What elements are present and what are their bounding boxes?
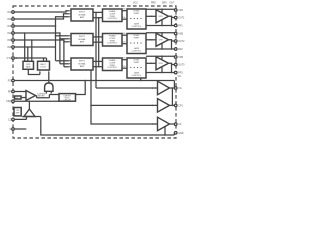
wire U5 to U8 upper with label <box>122 33 127 35</box>
node low rail ch3 <box>171 72 173 74</box>
svg-text:IN4: IN4 <box>7 33 11 35</box>
pin RF2 <box>174 48 183 51</box>
svg-text:VCC: VCC <box>133 3 138 5</box>
wire low rail ch3 <box>146 72 174 74</box>
block D1 power save <box>23 61 34 69</box>
svg-text:CONTROL: CONTROL <box>107 18 118 20</box>
wire VM stub into A2 <box>161 33 163 37</box>
svg-text:CSD: CSD <box>6 101 11 103</box>
svg-text:IN6: IN6 <box>7 47 11 49</box>
svg-text:VG: VG <box>123 58 126 60</box>
pin IN4 <box>7 32 14 35</box>
gate G1 input stubs <box>46 91 51 93</box>
arrow SUB <box>25 128 27 130</box>
svg-text:VG: VG <box>123 66 126 68</box>
node IN3 bus <box>55 25 57 27</box>
pin SUB <box>9 128 14 131</box>
wire TA out down <box>172 88 174 105</box>
wire low stub into A1 <box>161 20 163 26</box>
node low rail ch2 <box>171 48 173 50</box>
svg-text:INPUT: INPUT <box>79 36 86 38</box>
node IN6/D1 <box>27 46 29 48</box>
wire U4 to U7 lower with label <box>122 17 127 19</box>
node VM stub ch3 <box>161 55 163 57</box>
wire low stub into A3 <box>161 67 163 73</box>
wire IN5 down to D1 <box>31 40 33 61</box>
wire limit drop to box arrow <box>77 81 86 95</box>
wire corner down to bottom rail <box>41 117 175 136</box>
svg-text:CONTROL: CONTROL <box>132 26 143 28</box>
svg-text:VM1: VM1 <box>178 10 183 12</box>
node IN3/U2 <box>55 35 57 37</box>
node A3 in <box>150 63 152 65</box>
vertical bus X96 <box>95 12 97 88</box>
svg-text:0.5: 0.5 <box>15 98 18 100</box>
label current limiter <box>37 93 47 97</box>
pin OUT2 <box>174 40 185 43</box>
wire IN1 to U1 <box>14 11 69 12</box>
pin CP1 <box>174 104 183 107</box>
wire IN3 to U2 <box>56 35 69 37</box>
svg-text:CONTROL: CONTROL <box>132 51 143 53</box>
wire TA out <box>170 87 175 89</box>
svg-text:VG: VG <box>123 17 126 19</box>
wire apex riser <box>28 101 30 109</box>
svg-text:VM2: VM2 <box>178 34 183 36</box>
vertical bus X98 <box>98 18 100 67</box>
arrow into D2 bottom right <box>48 70 49 72</box>
wire U2 lower to U5 <box>93 41 103 43</box>
node TA input <box>152 87 154 89</box>
node A2 in <box>150 39 152 41</box>
node A1 in <box>150 15 152 17</box>
node A3 out <box>171 63 173 65</box>
node CSD apex riser <box>29 100 31 102</box>
block U3 signal amp ch3 <box>69 58 93 70</box>
node Vb branch <box>90 105 92 107</box>
svg-text:LOGIC: LOGIC <box>40 67 47 69</box>
node gate/FG <box>48 80 50 82</box>
driver amp TB <box>158 99 170 113</box>
pin OUT3 <box>174 63 185 66</box>
wire IN2 to U1 <box>14 14 69 19</box>
wire IN5 to U2 <box>64 41 69 43</box>
wire VM stub into A3 <box>161 56 163 60</box>
pin VM4 <box>174 87 181 90</box>
node VM stub ch1 <box>161 8 163 10</box>
node IN5/U2 <box>63 41 65 43</box>
svg-text:AMP: AMP <box>80 41 85 44</box>
node VM stub ch2 <box>161 32 163 34</box>
node A1 out <box>171 15 173 17</box>
svg-text:INPUT: INPUT <box>79 61 86 63</box>
block U5 pwm ch2 <box>103 34 123 47</box>
vertical Vb feedback <box>91 70 158 124</box>
wire low stub into A2 <box>161 43 163 49</box>
svg-text:AMP: AMP <box>80 65 85 68</box>
arrow into TB <box>155 105 157 106</box>
svg-text:VG: VG <box>178 76 182 78</box>
wire IN5 bus <box>14 40 64 67</box>
wire A2 out to low rail <box>171 40 173 49</box>
svg-text:CONTROL: CONTROL <box>107 43 118 45</box>
pin VM1 <box>174 9 183 12</box>
pin IN3 <box>7 25 14 28</box>
node low rail ch1 <box>171 25 173 27</box>
wire U3 lower to U6 <box>93 66 103 68</box>
svg-text:PRE: PRE <box>151 3 156 5</box>
block U4 pwm ch1 <box>103 9 123 22</box>
driver amp TC <box>158 117 170 131</box>
wire C3 bottom stub <box>140 78 142 81</box>
block CL current limit <box>59 94 76 102</box>
svg-text:VG: VG <box>178 88 182 90</box>
svg-text:FG: FG <box>8 81 11 83</box>
node CTL <box>16 57 18 59</box>
wire C3 to A3 input <box>146 62 156 64</box>
wire IN6 down to D1 <box>27 47 29 61</box>
wire CTL to D2 <box>14 58 46 61</box>
svg-text:CONTROL: CONTROL <box>132 75 143 77</box>
pin VM3 <box>174 56 183 59</box>
svg-text:CONTROL: CONTROL <box>107 67 118 69</box>
wire U4 to U7 upper with label <box>122 9 127 11</box>
wire U2 to U5 <box>93 36 103 38</box>
pin IN1 <box>7 11 14 14</box>
wire A1 out to low rail <box>171 16 173 25</box>
svg-text:SIGNAL: SIGNAL <box>78 62 86 65</box>
pin CSD <box>6 100 14 103</box>
wire A2 output <box>169 40 175 41</box>
wire comparator out <box>36 95 60 98</box>
IC boundary dashed border <box>13 6 176 138</box>
wire VM rail ch1 <box>146 8 174 11</box>
wire GND pin to base <box>14 117 26 120</box>
node low stub ch3 <box>161 72 163 74</box>
node IN5/D1 <box>31 39 33 41</box>
svg-text:RF: RF <box>8 92 12 94</box>
pin RF3 <box>174 71 183 74</box>
wire IN3 to U3 <box>56 60 69 62</box>
block E thermal <box>14 108 21 116</box>
node base join <box>26 116 28 118</box>
svg-text:CIRCUIT: CIRCUIT <box>64 100 72 102</box>
wire U5 to U8 lower with label <box>122 42 127 44</box>
pin IN2 <box>7 18 14 21</box>
node IN4 bus <box>59 32 61 34</box>
label top annotation row <box>133 3 175 5</box>
svg-text:CTL: CTL <box>7 58 12 60</box>
node IN5 bus <box>63 39 65 41</box>
pin IN5 <box>7 39 14 42</box>
svg-text:RF3: RF3 <box>178 73 183 75</box>
wire IN5 to U3 <box>64 66 69 68</box>
svg-text:VG: VG <box>123 9 126 11</box>
node C3 stub <box>140 80 142 82</box>
wire U6 to U9 lower with label <box>122 66 127 68</box>
svg-text:AMP: AMP <box>80 16 85 19</box>
node IN4/CTL <box>24 32 26 34</box>
svg-text:DRV: DRV <box>162 3 167 5</box>
svg-text:SHIFT: SHIFT <box>134 13 141 15</box>
svg-text:IN5: IN5 <box>7 40 11 42</box>
node U3 out2 <box>98 66 100 68</box>
wire U1 to U4 <box>93 11 103 13</box>
svg-text:VM3: VM3 <box>178 57 183 59</box>
pin FG <box>8 79 15 82</box>
wire A3 out to low rail <box>171 63 173 72</box>
driver amp TA <box>158 81 170 95</box>
svg-text:CP1: CP1 <box>178 105 183 107</box>
pin RF1 <box>174 24 183 27</box>
node U2 out <box>95 36 97 38</box>
svg-text:OUT3: OUT3 <box>178 65 185 67</box>
pin GND1 <box>8 118 14 121</box>
svg-text:SHIFT: SHIFT <box>134 62 141 64</box>
wire A1 output <box>169 16 175 17</box>
svg-text:OUT1: OUT1 <box>178 18 185 20</box>
wire low rail ch2 <box>146 48 174 50</box>
node rail stub <box>164 134 166 136</box>
svg-text:IN2: IN2 <box>7 19 11 21</box>
node low stub ch2 <box>161 48 163 50</box>
wire U6 to U9 upper with label <box>122 58 127 60</box>
wire IN6 <box>14 46 55 48</box>
wire IN3 bus <box>14 26 55 61</box>
wire FG rail <box>14 81 174 89</box>
wire IN4 down to D1 <box>24 33 26 61</box>
node low stub ch1 <box>161 25 163 27</box>
wire C2 to A2 input <box>146 39 156 41</box>
arrow into D2 bottom left <box>39 70 40 72</box>
wire VM rail ch3 <box>146 55 174 58</box>
wire IN4 to U3 <box>60 63 69 65</box>
wire SUB arrow <box>14 128 25 130</box>
wire low rail ch1 <box>146 25 174 27</box>
block D2 fault logic <box>38 61 50 70</box>
node IN4/U2 <box>59 38 61 40</box>
node TC input <box>152 123 154 125</box>
arrow into TA <box>155 87 157 88</box>
wire TB out <box>170 104 173 106</box>
svg-text:C2: C2 <box>178 124 182 126</box>
pin GND2 <box>174 132 183 135</box>
pin CTL <box>7 57 15 60</box>
block U9 predriver ch3 <box>127 58 146 78</box>
svg-text:OUT2: OUT2 <box>178 41 185 43</box>
pin VM2 <box>174 32 183 35</box>
wire Va to TA <box>96 87 158 89</box>
driver amp A2 ch2 <box>156 33 169 46</box>
wire U3 to U6 <box>93 60 103 62</box>
gate G1 <box>45 83 53 91</box>
pin C2 <box>174 123 182 126</box>
wire A3 output <box>169 63 175 64</box>
wire C1 to A1 input <box>146 15 156 17</box>
svg-text:IN3: IN3 <box>7 26 11 28</box>
svg-text:RF1: RF1 <box>178 26 183 28</box>
svg-text:RF2: RF2 <box>178 49 183 51</box>
driver amp A1 ch1 <box>156 10 169 23</box>
wire IN4 bus <box>14 33 60 64</box>
node U1 out2 <box>98 17 100 19</box>
wire TC out <box>170 123 175 125</box>
node TB out join <box>172 105 174 107</box>
wire gate out up to D2 arrow <box>48 72 50 83</box>
wire VM stub into A1 <box>161 9 163 13</box>
block U1 signal amp ch1 <box>69 9 93 21</box>
driver amp A3 ch3 <box>156 57 169 70</box>
node FG/limit <box>84 80 86 82</box>
arrow into B row 12.4 <box>100 12 102 13</box>
wire CSD along bottom of limiter <box>14 100 59 102</box>
wire D1 bottom to D2 arrow <box>28 69 40 74</box>
node TB input <box>152 105 154 107</box>
node IN4/CTL join <box>24 57 26 59</box>
arrow into TC <box>155 123 157 124</box>
comparator CMP1 <box>26 91 36 101</box>
svg-text:GND: GND <box>178 133 183 135</box>
svg-text:SIGNAL: SIGNAL <box>78 38 86 41</box>
node U2 out2 <box>98 41 100 43</box>
wire IN3 branch up to U1 <box>56 17 69 26</box>
wire VM rail ch2 <box>146 32 174 35</box>
block U6 pwm ch3 <box>103 58 123 71</box>
reference box VREF <box>15 96 22 100</box>
node U1 out <box>95 12 97 14</box>
arrow into limiter box <box>75 94 77 95</box>
svg-text:IN1: IN1 <box>7 12 11 14</box>
pin RF sense <box>8 90 14 93</box>
regulator triangle T1 <box>24 109 35 117</box>
arrow into B row 36.9 <box>100 36 102 37</box>
block U2 signal amp ch2 <box>69 34 93 46</box>
node A2 out <box>171 39 173 41</box>
wire stub into TC <box>164 127 166 136</box>
wire Vb to TB <box>91 104 158 106</box>
wire IN4 to U2 <box>60 38 69 40</box>
block U7 predriver ch1 <box>127 9 146 29</box>
wire VREF to comparator <box>21 97 26 99</box>
wire U1 lower to U4 <box>93 17 103 19</box>
wire regulator base line <box>22 116 41 118</box>
svg-text:SAVE: SAVE <box>26 65 32 68</box>
svg-text:SIGNAL: SIGNAL <box>78 13 86 16</box>
pin OUT1 <box>174 16 185 19</box>
pin IN6 <box>7 46 14 49</box>
node U3 out <box>95 61 97 63</box>
node TA out <box>172 87 174 89</box>
svg-text:VG: VG <box>123 42 126 44</box>
svg-text:FAULT: FAULT <box>40 63 47 66</box>
svg-text:VG: VG <box>123 33 126 35</box>
svg-text:OUT: OUT <box>170 3 175 5</box>
svg-text:SHIFT: SHIFT <box>134 38 141 40</box>
svg-text:INPUT: INPUT <box>79 12 86 14</box>
arrow into B row 61.4 <box>100 61 102 62</box>
block U8 predriver ch2 <box>127 34 146 54</box>
wire RF to comparator <box>14 92 26 94</box>
